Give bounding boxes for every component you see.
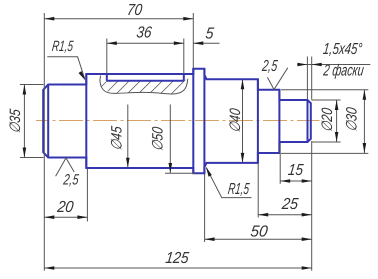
svg-text:20: 20	[55, 198, 74, 216]
svg-text:70: 70	[126, 1, 143, 19]
svg-text:∅35: ∅35	[7, 108, 24, 135]
keyway hatching	[98, 74, 191, 96]
svg-text:∅40: ∅40	[227, 107, 244, 134]
keyway left end	[106, 74, 108, 81]
collar right edge	[203, 69, 205, 173]
dimension 70	[44, 18, 193, 20]
svg-text:2 фаски: 2 фаски	[322, 62, 365, 80]
svg-text:50: 50	[250, 223, 269, 241]
svg-text:15: 15	[287, 161, 304, 179]
dimension 25	[257, 164, 259, 218]
svg-text:∅45: ∅45	[109, 125, 126, 152]
dimension 15	[279, 143, 281, 184]
dimension dia20	[312, 99, 341, 101]
step edge 40/30	[257, 79, 259, 163]
extension line x193	[192, 13, 194, 68]
centerline	[36, 120, 320, 122]
chamfer leader 2,5 left	[56, 158, 75, 176]
collar left edge	[192, 69, 194, 173]
dimension dia40	[242, 79, 244, 162]
radius leader R1,5 bottom	[206, 168, 251, 198]
svg-text:1,5x45°: 1,5x45°	[322, 40, 364, 58]
dimension dia35	[20, 84, 44, 86]
svg-text:R1,5: R1,5	[51, 38, 74, 55]
chamfer leader 2,5 right	[267, 68, 287, 90]
right chamfer line	[307, 100, 309, 142]
svg-text:125: 125	[165, 249, 190, 267]
dimension 20	[86, 169, 88, 222]
shaft outline	[43, 69, 311, 173]
step edge 30/20	[278, 90, 280, 153]
keyway right end	[183, 74, 185, 81]
svg-text:∅50: ∅50	[150, 125, 167, 152]
svg-text:2,5: 2,5	[62, 172, 80, 189]
dimension 36	[106, 39, 108, 74]
chamfer dimension 1,5x45	[306, 57, 308, 100]
svg-text:∅20: ∅20	[319, 106, 336, 133]
keyway bottom	[107, 80, 184, 82]
dimension 125	[44, 267, 311, 269]
svg-text:36: 36	[136, 24, 153, 42]
radius leader R1,5 top left	[47, 57, 85, 79]
svg-text:∅30: ∅30	[343, 106, 360, 133]
dimension dia30	[281, 89, 368, 91]
local section wavy break line	[100, 76, 188, 94]
svg-text:2,5: 2,5	[261, 57, 279, 75]
dimension 50	[204, 174, 206, 242]
dimension dia45	[127, 105, 129, 168]
svg-text:25: 25	[280, 195, 299, 213]
dimension 5	[193, 42, 219, 44]
step edge 35/45	[85, 74, 87, 168]
extension line left long	[43, 13, 45, 271]
left chamfer line	[47, 85, 49, 158]
dimension dia50	[169, 105, 171, 174]
extension line right long	[311, 141, 313, 271]
svg-text:R1,5: R1,5	[227, 180, 250, 198]
